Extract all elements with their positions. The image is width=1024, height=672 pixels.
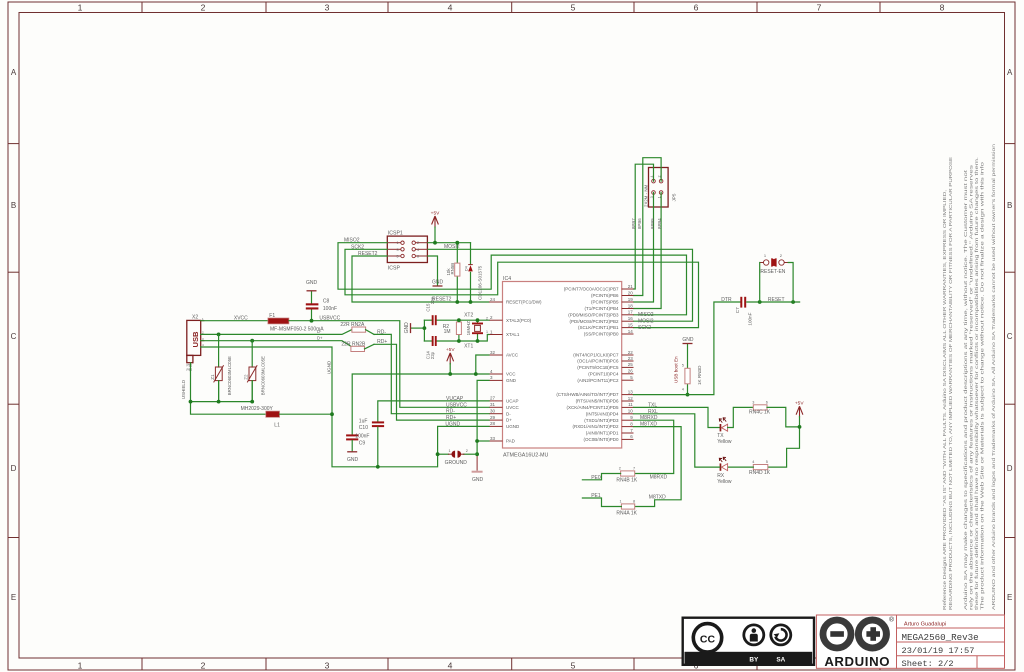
- label Z2: [243, 374, 248, 380]
- svg-text:B: B: [11, 201, 16, 210]
- wire +5V down to RX branch: [768, 417, 800, 468]
- label JP5: [672, 193, 677, 201]
- svg-text:VUCAP: VUCAP: [446, 396, 464, 402]
- svg-text:1: 1: [397, 241, 399, 245]
- wire RESET line: [747, 301, 800, 303]
- svg-text:(RTS/AIN5/INT6)PD6: (RTS/AIN5/INT6)PD6: [576, 399, 619, 404]
- svg-text:JP5: JP5: [672, 193, 677, 201]
- label MISO2 left: [344, 238, 360, 244]
- power +5V symbol LEDs: [795, 401, 804, 418]
- label XT1: [464, 344, 473, 350]
- label RD+ at IC: [446, 415, 456, 421]
- svg-text:(OC0B/INT0)PD0: (OC0B/INT0)PD0: [583, 437, 619, 442]
- svg-text:22: 22: [628, 350, 634, 355]
- svg-text:5: 5: [766, 460, 768, 464]
- svg-text:RXL: RXL: [648, 409, 658, 415]
- svg-text:M8RXD: M8RXD: [650, 475, 668, 481]
- svg-text:4: 4: [448, 661, 453, 671]
- capacitor C15 22p: [432, 315, 437, 325]
- svg-text:VCC: VCC: [506, 372, 516, 377]
- svg-text:UVCC: UVCC: [506, 405, 520, 410]
- svg-text:SCK2: SCK2: [351, 244, 364, 250]
- svg-text:22p: 22p: [430, 296, 435, 304]
- svg-text:(RXD1/AIN1/INT2)PD2: (RXD1/AIN1/INT2)PD2: [572, 424, 619, 429]
- svg-text:D+: D+: [506, 418, 512, 423]
- label C7: [735, 307, 740, 313]
- svg-text:GND: GND: [347, 457, 359, 463]
- title text author: [904, 621, 946, 627]
- svg-text:4: 4: [448, 3, 453, 13]
- svg-text:19: 19: [628, 297, 634, 302]
- svg-text:6: 6: [417, 255, 419, 259]
- capacitor C9 100nF: [346, 434, 358, 450]
- label Z1 BRNC0603MLC05E: [227, 356, 232, 395]
- label RXL: [648, 409, 658, 415]
- svg-text:A: A: [11, 68, 17, 77]
- svg-text:RN4C 1K: RN4C 1K: [749, 410, 771, 416]
- wire PE1: [582, 498, 621, 507]
- svg-text:(AIN0/INT1)PD1: (AIN0/INT1)PD1: [586, 431, 619, 436]
- label UGND at IC: [445, 421, 460, 427]
- label RD- at IC: [446, 409, 455, 415]
- resistor RN2B 22R: [351, 344, 489, 420]
- label 2X2M - NM: [643, 184, 648, 207]
- wire XVCC X2 to F1: [201, 320, 268, 322]
- svg-text:E: E: [1007, 593, 1012, 602]
- svg-text:22p: 22p: [430, 351, 435, 359]
- label USBVCC: [319, 315, 340, 321]
- wire AVCC: [476, 355, 489, 374]
- wire M8TXD IC pin8 to RN4A: [634, 427, 682, 507]
- svg-text:100nF: 100nF: [323, 306, 337, 312]
- wire VCC rail to C9: [352, 374, 489, 434]
- svg-text:®: ®: [889, 616, 894, 624]
- label RD+: [377, 339, 387, 345]
- svg-text:3: 3: [325, 661, 330, 671]
- svg-text:(PCINT7/OC0A/OC1C)PB7: (PCINT7/OC0A/OC1C)PB7: [564, 287, 619, 292]
- power +5V symbol at ICSP: [431, 210, 440, 242]
- svg-text:10: 10: [628, 409, 634, 414]
- svg-text:1: 1: [78, 661, 83, 671]
- label C7 100nF: [748, 312, 753, 325]
- label 1uF C10: [359, 418, 368, 431]
- svg-text:27: 27: [490, 396, 496, 401]
- wire TXL IC pin11 to LED: [634, 407, 720, 427]
- svg-text:8PB5: 8PB5: [650, 218, 655, 229]
- svg-text:GND: GND: [306, 280, 318, 286]
- svg-text:UGND: UGND: [327, 360, 332, 374]
- ground symbol above RN3D: [682, 337, 694, 343]
- svg-text:BRNC0603MLC05E: BRNC0603MLC05E: [260, 356, 265, 395]
- svg-text:(PCINT10)PC4: (PCINT10)PC4: [588, 371, 619, 376]
- svg-text:XT1: XT1: [464, 344, 473, 350]
- junction dot C8: [310, 319, 314, 323]
- label RESET-EN: [760, 269, 785, 275]
- label VUCAP: [446, 396, 464, 402]
- svg-text:BY: BY: [749, 657, 759, 664]
- svg-text:USB: USB: [191, 331, 200, 348]
- svg-text:30: 30: [490, 409, 496, 414]
- svg-text:4: 4: [682, 387, 684, 391]
- title text sheet: [902, 659, 954, 669]
- svg-text:RD-: RD-: [377, 329, 386, 335]
- svg-text:24: 24: [490, 297, 496, 302]
- svg-text:C: C: [1007, 332, 1013, 341]
- wire net 8PB5 IC pin19 to JP5: [634, 193, 654, 303]
- label Z2 BRNC0603MLC05E: [260, 356, 265, 395]
- svg-text:RESET-EN: RESET-EN: [760, 269, 785, 275]
- svg-text:18: 18: [628, 303, 634, 308]
- power +5V symbol at VCC: [446, 347, 455, 374]
- svg-text:GND: GND: [682, 337, 694, 343]
- svg-text:(PCINT6)PB6: (PCINT6)PB6: [591, 293, 619, 298]
- svg-text:11: 11: [628, 402, 633, 407]
- svg-text:CD1206-S01575: CD1206-S01575: [478, 265, 483, 300]
- wire XTAL2 top line: [424, 319, 489, 321]
- wire RESET-EN pin2: [788, 263, 793, 303]
- svg-text:C9: C9: [359, 440, 366, 446]
- svg-text:D-: D-: [506, 411, 511, 416]
- svg-text:UGND: UGND: [506, 424, 520, 429]
- wire XTAL1 bottom line: [424, 335, 489, 342]
- svg-text:RN5B: RN5B: [450, 263, 455, 275]
- wire TX LED to RN4C: [728, 407, 754, 427]
- svg-text:UGND: UGND: [445, 421, 460, 427]
- svg-text:(T1/PCINT4)PB4: (T1/PCINT4)PB4: [584, 306, 619, 311]
- label M8TXD at IC: [640, 422, 657, 428]
- wire D- X2 to RN2A: [201, 330, 352, 335]
- svg-text:Z2: Z2: [243, 374, 248, 380]
- junction dot D4 on RESET2: [469, 300, 473, 304]
- svg-text:+5V: +5V: [795, 401, 804, 407]
- svg-text:E: E: [11, 593, 16, 602]
- junction dots RN5B: [455, 241, 459, 304]
- op-amp/IC U: IC4 ATMEGA16U2-MU body and pins: [489, 282, 634, 449]
- label PE0: [591, 475, 601, 481]
- wire DTR IC pin13 to C7: [634, 302, 741, 395]
- wire net 8PB6 IC pin20 to JP5: [634, 158, 662, 296]
- label Z1: [210, 374, 215, 380]
- svg-text:UCAP: UCAP: [506, 399, 519, 404]
- wire PE0: [582, 474, 620, 480]
- svg-text:M8TXD: M8TXD: [640, 422, 657, 428]
- junction dot +5V: [433, 241, 437, 245]
- svg-text:RN4B 1K: RN4B 1K: [616, 477, 638, 483]
- wire net MISO2 loop ICSP pin1 to IC pin17: [338, 243, 687, 315]
- svg-text:C10: C10: [359, 425, 368, 431]
- junction dots PAD rail: [475, 439, 479, 456]
- wire RN4D to RX LED: [728, 466, 754, 468]
- fuse F1 MF-MSMF050-2: [268, 318, 289, 324]
- junction dot GROUND left: [436, 452, 440, 456]
- label M8TXD lower: [649, 494, 666, 500]
- connector X2 USB body: [187, 320, 205, 362]
- svg-text:(CTS/HWB/AIN6/TO/INT7)PD7: (CTS/HWB/AIN6/TO/INT7)PD7: [556, 392, 619, 397]
- svg-text:A: A: [1007, 68, 1013, 77]
- svg-text:Arduino SA may make changes to: Arduino SA may make changes to specifica…: [963, 169, 969, 610]
- svg-text:16: 16: [628, 316, 634, 321]
- ground symbol at ICSP: [432, 279, 444, 286]
- resistor RN5B 10k pullup: [455, 243, 460, 302]
- svg-text:5: 5: [571, 661, 576, 671]
- svg-text:32: 32: [490, 350, 496, 355]
- svg-text:4: 4: [417, 248, 419, 252]
- wire UGND X2 to IC: [201, 347, 489, 467]
- svg-text:rely on the absence or charact: rely on the absence or characteristics o…: [968, 164, 974, 610]
- svg-text:8PB7: 8PB7: [631, 218, 636, 229]
- connector JP5 header body: [649, 168, 669, 208]
- label C8: [323, 299, 337, 312]
- svg-text:AVCC: AVCC: [506, 353, 519, 358]
- svg-text:(PCINT5)PB5: (PCINT5)PB5: [591, 300, 619, 305]
- svg-text:26: 26: [628, 369, 634, 374]
- wire M8RXD IC pin9 to RN4B: [634, 420, 674, 473]
- svg-text:3: 3: [325, 3, 330, 13]
- svg-text:D: D: [11, 464, 17, 473]
- svg-text:GND: GND: [404, 322, 410, 334]
- svg-text:2: 2: [466, 449, 468, 453]
- label TX Yellow: [717, 433, 732, 445]
- svg-text:PE0: PE0: [591, 475, 601, 481]
- label ATMEGA16U2-MU: [503, 453, 549, 459]
- svg-text:ICSP: ICSP: [388, 266, 401, 272]
- svg-text:CC: CC: [700, 633, 716, 645]
- svg-text:5: 5: [571, 3, 576, 13]
- JP5 pin numbers: [650, 176, 662, 199]
- junction dot +5V LED: [798, 425, 802, 429]
- svg-text:USBVCC: USBVCC: [446, 402, 467, 408]
- svg-text:5: 5: [397, 255, 399, 259]
- svg-text:GND: GND: [432, 279, 444, 285]
- svg-text:28: 28: [490, 421, 496, 426]
- svg-text:1K RN3D: 1K RN3D: [697, 365, 702, 385]
- wire VUCAP IC pin27 to C10: [378, 401, 489, 421]
- svg-text:USBVCC: USBVCC: [319, 315, 340, 321]
- svg-text:GND: GND: [506, 378, 517, 383]
- label 16MHZ: [466, 321, 471, 336]
- svg-text:F1: F1: [269, 313, 275, 319]
- svg-text:(TXD1/INT3)PD3: (TXD1/INT3)PD3: [584, 418, 619, 423]
- junction dot L1 UGND: [330, 412, 334, 416]
- label MH2029-300Y: [241, 406, 274, 412]
- svg-text:RN4A 1K: RN4A 1K: [616, 510, 637, 516]
- label M8RXD lower: [650, 475, 668, 481]
- ground symbol below C9: [347, 452, 359, 463]
- svg-text:+5V: +5V: [431, 210, 440, 216]
- label ICSP1: [388, 231, 403, 237]
- svg-text:(OC1A/PCINT8)PC6: (OC1A/PCINT8)PC6: [577, 359, 619, 364]
- X2 pin numbers: [202, 317, 204, 347]
- svg-text:8PB4: 8PB4: [657, 218, 662, 229]
- label R2 1M: [443, 324, 451, 335]
- label RESET-EN pins: [764, 253, 783, 258]
- svg-text:Sheet: 2/2: Sheet: 2/2: [902, 659, 954, 669]
- svg-text:15: 15: [628, 322, 634, 327]
- label RESET2 at IC: [432, 297, 452, 303]
- resistor RN3D 1K: [685, 345, 690, 395]
- logo ARDUINO infinity: [816, 615, 896, 669]
- svg-text:6: 6: [694, 3, 699, 13]
- solder jumper RESET-EN: [760, 258, 789, 266]
- svg-text:7: 7: [633, 467, 635, 471]
- label RN4C 1K: [749, 410, 771, 416]
- capacitor C14 22p: [432, 336, 437, 346]
- label SCK2 left: [351, 244, 364, 250]
- connector ICSP1 header body: [387, 236, 427, 262]
- label RN4C pins: [752, 401, 768, 405]
- label X2: [192, 315, 198, 321]
- svg-text:20: 20: [628, 290, 634, 295]
- svg-text:RN4D 1K: RN4D 1K: [749, 470, 771, 476]
- label RX Yellow: [717, 473, 732, 485]
- crystal XT1 16MHz: [472, 320, 483, 341]
- svg-text:XT2: XT2: [464, 312, 473, 318]
- svg-text:(SS/PCINT0)PB0: (SS/PCINT0)PB0: [584, 332, 619, 337]
- svg-text:6: 6: [766, 401, 768, 405]
- label MISO2 at IC: [638, 312, 654, 318]
- svg-text:P$1: P$1: [187, 364, 193, 368]
- wire ICSP pin2 to +5V rail: [428, 242, 471, 244]
- svg-text:(AIN2/PCINT11)PC2: (AIN2/PCINT11)PC2: [577, 378, 619, 383]
- wire shield rail: [191, 363, 266, 415]
- svg-text:USB boot En: USB boot En: [674, 356, 679, 383]
- svg-text:GND: GND: [472, 477, 484, 483]
- label MOSI2 at IC: [638, 318, 654, 324]
- label F1: [269, 313, 275, 319]
- resistor RN2A 22R: [352, 327, 489, 414]
- svg-text:100nF: 100nF: [748, 312, 753, 325]
- svg-text:2: 2: [201, 661, 206, 671]
- svg-text:1: 1: [78, 3, 83, 13]
- varistor Z1: [214, 334, 224, 401]
- svg-text:2X2M - NM: 2X2M - NM: [643, 184, 648, 207]
- svg-text:these for future definition an: these for future definition and shall ha…: [974, 157, 980, 610]
- svg-text:Yellow: Yellow: [717, 479, 732, 485]
- led RX yellow: [719, 457, 727, 471]
- label GROUND pins: [449, 449, 468, 453]
- svg-text:M8TXD: M8TXD: [649, 494, 666, 500]
- junction dot Z1 on D-: [217, 333, 221, 337]
- label RD-: [377, 329, 386, 335]
- label 100nF C9: [355, 434, 369, 447]
- ground symbol below PAD: [472, 472, 484, 483]
- svg-text:ARDUINO and other Arduino bran: ARDUINO and other Arduino brands and log…: [991, 144, 997, 610]
- svg-text:29: 29: [490, 415, 496, 420]
- ground symbol above C8: [306, 280, 318, 291]
- svg-text:7: 7: [817, 3, 822, 13]
- labels 8PB7 8PB6 8PB5 8PB4: [631, 218, 662, 229]
- label M8RXD at IC: [640, 415, 658, 421]
- label TXL: [648, 402, 657, 408]
- label 1K RN3D: [697, 365, 702, 385]
- crystal pin numbers: [486, 317, 488, 335]
- disclaimer text block B: [963, 157, 986, 610]
- svg-text:2: 2: [417, 241, 419, 245]
- svg-text:+5V: +5V: [446, 347, 455, 353]
- wire GND pin3 PAD rail: [477, 380, 489, 470]
- label USBVCC at IC: [446, 402, 467, 408]
- junction dot Z2 on D+: [250, 339, 254, 343]
- label UGND vertical: [327, 360, 332, 374]
- inductor L1 MH2029-300Y: [266, 411, 332, 417]
- svg-text:X2: X2: [192, 315, 198, 321]
- label RN4D 1K: [749, 470, 771, 476]
- svg-text:8: 8: [940, 3, 945, 13]
- svg-text:RESET2: RESET2: [432, 297, 452, 303]
- svg-text:GROUND: GROUND: [445, 460, 468, 466]
- wire RESET-EN pin1: [759, 263, 761, 303]
- wire net RESET2 ICSP pin5 to IC pin24: [352, 256, 489, 302]
- svg-text:REGARDING PRODUCTS, INCLUDING: REGARDING PRODUCTS, INCLUDING BUT NOT LI…: [948, 156, 954, 610]
- svg-text:MISO2: MISO2: [638, 312, 654, 318]
- junction dot C10: [376, 465, 380, 469]
- label XT2: [464, 312, 473, 318]
- junction dot crystal gnd: [423, 326, 427, 330]
- svg-text:M8RXD: M8RXD: [640, 415, 658, 421]
- title block border: [897, 615, 1005, 668]
- label XVCC: [234, 316, 248, 322]
- svg-text:2: 2: [201, 3, 206, 13]
- svg-text:4: 4: [752, 460, 754, 464]
- label 22R RN2A: [340, 322, 365, 328]
- wire net 8PB7 IC pin21 to JP5: [634, 164, 654, 289]
- label SCK2 at IC: [638, 325, 651, 331]
- svg-text:13: 13: [628, 389, 634, 394]
- junction dot RN3D: [686, 393, 690, 397]
- wire RXL RX LED to IC pin10: [634, 414, 720, 467]
- svg-text:DTR: DTR: [721, 297, 732, 303]
- svg-text:33: 33: [490, 436, 496, 441]
- svg-text:(INT4/ICP1/CLK0)PC7: (INT4/ICP1/CLK0)PC7: [573, 353, 619, 358]
- svg-text:IC4: IC4: [503, 276, 511, 282]
- svg-text:5: 5: [682, 363, 684, 367]
- label CD1206-S01575: [478, 265, 483, 300]
- svg-text:SCK2: SCK2: [638, 325, 651, 331]
- svg-text:MEGA2560_Rev3e: MEGA2560_Rev3e: [902, 632, 979, 643]
- svg-text:23/01/19 17:57: 23/01/19 17:57: [902, 646, 975, 656]
- svg-text:PAD: PAD: [506, 439, 516, 444]
- svg-text:14: 14: [628, 329, 634, 334]
- svg-text:TXL: TXL: [648, 402, 657, 408]
- svg-text:1uF: 1uF: [359, 418, 368, 424]
- label IC4: [503, 276, 511, 282]
- label DTR: [721, 297, 732, 303]
- label D4: [464, 266, 468, 271]
- svg-text:23: 23: [628, 356, 634, 361]
- svg-text:RESET: RESET: [768, 297, 785, 303]
- label RESET2 left: [358, 251, 378, 257]
- label C14 22p: [425, 351, 434, 360]
- jumper GROUND: [438, 451, 478, 458]
- svg-text:C: C: [11, 332, 17, 341]
- svg-text:Reference Designs ARE PROVIDED: Reference Designs ARE PROVIDED "AS IS" A…: [942, 190, 948, 610]
- ICSP1 pin numbers: [397, 241, 420, 258]
- label D+: [317, 336, 323, 341]
- junction dot AVCC: [474, 372, 478, 376]
- label 22R RN2B: [341, 342, 366, 348]
- svg-text:P$2: P$2: [187, 368, 193, 372]
- svg-text:XTAL2(PC0): XTAL2(PC0): [506, 318, 532, 323]
- svg-text:D4: D4: [464, 266, 468, 271]
- svg-text:RESET2: RESET2: [358, 251, 378, 257]
- label L1: [274, 422, 280, 428]
- svg-text:100nF: 100nF: [355, 434, 369, 440]
- diode D4: [468, 243, 473, 302]
- label MOSI2: [444, 244, 460, 250]
- svg-text:The product information on the: The product information on the Web Site …: [980, 162, 986, 610]
- svg-text:8: 8: [633, 500, 635, 504]
- svg-text:8PB6: 8PB6: [637, 218, 642, 229]
